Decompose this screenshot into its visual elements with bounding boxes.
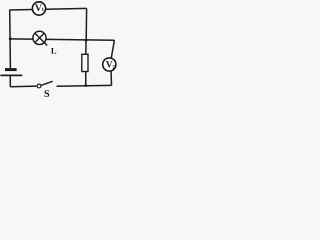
svg-text:S: S bbox=[44, 89, 50, 100]
svg-text:L: L bbox=[51, 46, 57, 56]
